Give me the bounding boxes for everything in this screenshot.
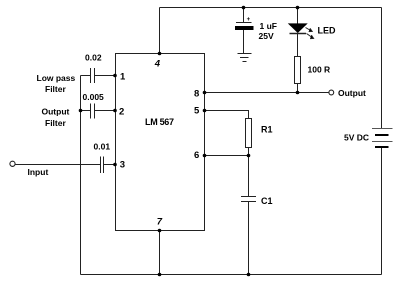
capacitor C1 plates	[241, 196, 256, 198]
svg-text:Output: Output	[42, 107, 70, 117]
capacitor 1uF positive plate	[236, 22, 252, 24]
terminal Input circle	[10, 161, 15, 166]
node pin4 junction	[158, 52, 162, 56]
svg-text:25V: 25V	[259, 31, 274, 41]
svg-text:2: 2	[119, 107, 124, 118]
wire R1 bottom to C1	[248, 148, 250, 197]
wire input to 0.01 cap	[16, 164, 101, 166]
svg-text:1: 1	[120, 72, 126, 83]
wire pin1 lead right	[95, 75, 116, 77]
wire pin8 to output terminal	[205, 92, 329, 94]
wire pin6 to R1 bottom node	[205, 155, 249, 157]
svg-text:1 uF: 1 uF	[260, 21, 277, 31]
LED D1 cathode bar	[290, 33, 307, 35]
IC U1 LM567 body	[116, 54, 205, 231]
capacitor 0.02 plates	[90, 68, 92, 83]
ground symbol	[238, 53, 252, 55]
svg-text:0.005: 0.005	[83, 92, 105, 102]
node pin6 junction	[203, 154, 207, 158]
battery 5VDC plate long top	[372, 128, 393, 130]
wire top rail	[160, 7, 382, 9]
capacitor 1uF negative plate bar	[235, 26, 254, 30]
wire right rail lower from battery to bottom rail	[381, 148, 383, 275]
node pin2 junction	[113, 109, 117, 113]
wire right rail upper to battery	[381, 8, 383, 129]
node pin5 junction	[203, 109, 207, 113]
terminal Output circle	[329, 90, 334, 95]
wire 1uF drop from top rail	[243, 8, 245, 23]
svg-text:5V DC: 5V DC	[344, 133, 369, 143]
capacitor 0.005 plates	[90, 104, 92, 119]
svg-text:100 R: 100 R	[308, 65, 331, 75]
node left bus 0.005 junction	[79, 109, 83, 113]
LED arrow 2	[307, 34, 314, 39]
svg-text:Low pass: Low pass	[37, 73, 76, 83]
wire C1 to bottom rail	[248, 202, 250, 275]
svg-text:0.02: 0.02	[85, 53, 102, 63]
wire pin7 to bottom rail	[159, 231, 161, 275]
svg-text:7: 7	[157, 217, 163, 228]
wire pin1 lead left	[81, 75, 91, 77]
svg-text:Filter: Filter	[45, 118, 66, 128]
svg-text:R1: R1	[261, 125, 273, 135]
wire 1uF to ground	[243, 30, 245, 54]
node R1-C1 junction	[247, 154, 251, 158]
LED arrow 1	[306, 28, 312, 32]
svg-text:LED: LED	[318, 26, 337, 36]
node C1 bottom rail junction	[247, 273, 251, 277]
svg-text:0.01: 0.01	[94, 142, 111, 152]
wire pin2 lead left	[81, 110, 91, 112]
svg-text:LM 567: LM 567	[145, 117, 174, 127]
wire 100R to output wire	[297, 84, 299, 93]
wire LED drop from top rail	[297, 8, 299, 25]
svg-text:4: 4	[154, 59, 161, 70]
node pin1 junction	[113, 74, 117, 78]
battery 5VDC plate long 2	[372, 141, 393, 143]
wire LED to 100R	[297, 34, 299, 57]
node LED top rail junction	[296, 6, 300, 10]
wire pin5 to R1 top	[205, 111, 249, 119]
node 1uF top rail junction	[242, 6, 246, 10]
battery 5VDC plate short thick 2	[375, 146, 389, 148]
battery 5VDC plate short thick 1	[375, 134, 389, 136]
svg-text:3: 3	[120, 160, 125, 171]
resistor R1 body	[246, 119, 252, 148]
node pin7 junction	[158, 229, 162, 233]
wire pin4 drop from top rail	[159, 8, 161, 54]
wire pin2 lead right	[95, 110, 116, 112]
capacitor 0.01 plates	[100, 157, 102, 174]
wire 0.01 cap to pin3	[104, 164, 116, 166]
node pin7 bottom rail junction	[158, 273, 162, 277]
svg-text:C1: C1	[261, 196, 273, 206]
svg-text:Filter: Filter	[45, 84, 66, 94]
svg-text:+: +	[247, 17, 251, 23]
wire bottom rail	[81, 274, 382, 276]
svg-text:6: 6	[194, 150, 199, 161]
resistor 100R body	[295, 57, 301, 84]
svg-text:Output: Output	[338, 88, 366, 98]
node LED output wire junction	[296, 91, 300, 95]
svg-text:5: 5	[194, 106, 200, 117]
svg-text:8: 8	[194, 89, 199, 100]
wire left vertical bus	[80, 76, 82, 275]
node pin3 junction	[113, 163, 117, 167]
node pin8 junction	[203, 91, 207, 95]
svg-text:Input: Input	[28, 167, 49, 177]
LED D1 triangle	[289, 24, 307, 32]
